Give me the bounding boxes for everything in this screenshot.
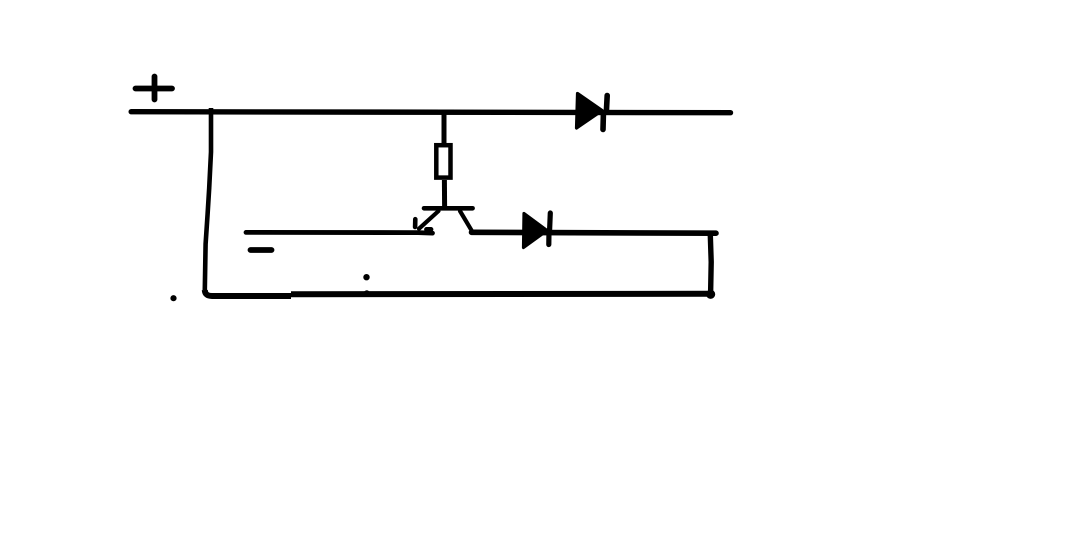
anode triangle	[524, 214, 548, 248]
wire: top positive rail	[131, 112, 730, 113]
junction blob bottom-right corner	[706, 290, 715, 299]
emitter diagonal	[419, 211, 439, 229]
− terminal label	[251, 247, 272, 253]
wire: middle rail left segment (from − terminal to transistor emitter)	[246, 230, 433, 236]
cathode bar lower stroke	[546, 230, 551, 245]
stray dot above bottom rail	[363, 274, 369, 280]
anode triangle	[577, 94, 603, 129]
diode D1 (top rail)	[577, 94, 608, 130]
base bar	[424, 206, 473, 211]
stray dot left of bottom rail	[170, 295, 176, 301]
stray dot touching bottom rail	[364, 290, 370, 296]
resistor R1	[436, 145, 450, 177]
+ terminal label	[136, 77, 173, 100]
resistor R1 top lead wire	[442, 112, 447, 143]
collector diagonal	[460, 211, 472, 230]
wire: right vertical branch	[710, 232, 711, 293]
wire: bottom return rail	[205, 290, 711, 296]
emitter arrowhead barb horizontal	[427, 227, 432, 232]
cathode bar upper stroke	[547, 213, 553, 230]
resistor R1 bottom lead wire	[442, 180, 447, 206]
wire: middle rail right segment (emitter to right vertical)	[472, 230, 717, 236]
emitter arrowhead barb vertical	[413, 219, 418, 227]
cathode bar lower stroke	[600, 114, 606, 130]
cathode bar upper stroke	[604, 96, 610, 112]
wire: left vertical branch from top rail	[205, 108, 211, 290]
transistor Q1	[415, 208, 473, 230]
diode D2 (middle rail)	[524, 213, 551, 248]
